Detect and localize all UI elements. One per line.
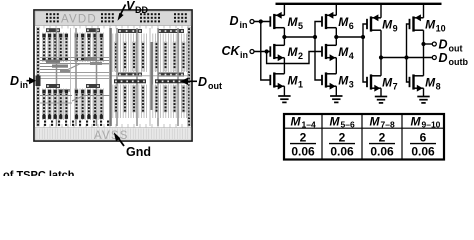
layout strap lower D — [155, 79, 187, 83]
layout strap upper C2 — [118, 73, 142, 77]
svg-text:M: M — [382, 18, 393, 32]
transistor M2 (NMOS) — [269, 44, 284, 61]
wire node C to M7 drain — [380, 58, 382, 76]
layout block upper C — [112, 34, 114, 73]
svg-text:5–6: 5–6 — [341, 120, 355, 130]
svg-text:M: M — [411, 115, 422, 129]
wire node B horizontal — [336, 36, 363, 38]
svg-text:in: in — [240, 20, 248, 30]
svg-text:9: 9 — [393, 24, 398, 34]
transistor M3 (NMOS) — [321, 72, 336, 89]
port circle D_in — [250, 20, 254, 24]
svg-text:6: 6 — [349, 21, 354, 31]
svg-text:D: D — [439, 51, 448, 65]
svg-text:of TSPC latch: of TSPC latch — [3, 170, 75, 177]
wire CK_in to M2 gate — [254, 51, 270, 53]
transistor M9 (PMOS) — [366, 14, 381, 31]
wire M10 source to VDD — [423, 4, 425, 18]
wire M6 drain to node B — [335, 28, 337, 37]
node B junction right — [361, 35, 365, 39]
layout left tap column — [37, 27, 40, 126]
svg-text:2: 2 — [298, 51, 303, 61]
svg-text:7–8: 7–8 — [381, 120, 395, 130]
layout block lower C — [112, 85, 114, 119]
wire M5 source to VDD — [283, 4, 285, 16]
svg-text:AVDD: AVDD — [61, 14, 97, 26]
node CK branch — [265, 49, 269, 53]
layout block upper A — [42, 33, 44, 63]
node A junction right — [313, 35, 317, 39]
node junction M10/M8 gates — [404, 55, 408, 59]
ground under M7 — [375, 97, 387, 103]
wire node C to D_outb — [381, 57, 433, 59]
wire node A to M6 and M3 gates — [315, 22, 322, 81]
svg-text:7: 7 — [393, 82, 398, 92]
svg-text:out: out — [208, 81, 222, 91]
svg-text:3: 3 — [349, 80, 354, 90]
svg-text:M: M — [288, 45, 299, 59]
wire CK to M4 gate — [267, 52, 322, 64]
layout block lower A — [42, 89, 44, 121]
svg-text:M: M — [425, 76, 436, 90]
port circle D_out — [432, 42, 436, 46]
svg-text:4: 4 — [349, 51, 354, 61]
layout block lower D — [152, 85, 154, 119]
svg-text:M: M — [370, 115, 381, 129]
svg-text:5: 5 — [298, 21, 303, 31]
wire M6 source to VDD — [335, 4, 337, 16]
wire node A horizontal — [284, 36, 315, 38]
wire M10 drain to node D — [423, 30, 425, 76]
wire node B to M9 and M7 gates — [363, 24, 367, 82]
svg-text:Gnd: Gnd — [126, 145, 151, 159]
wire M7 source to ground — [380, 88, 382, 96]
layout strap upper D — [158, 29, 184, 33]
svg-text:in: in — [240, 50, 248, 60]
transistor M5 (PMOS) — [269, 12, 284, 29]
svg-text:D: D — [230, 14, 239, 28]
layout AVSS ground rail band — [35, 128, 191, 141]
svg-text:D: D — [198, 75, 207, 89]
svg-text:0.06: 0.06 — [370, 145, 394, 159]
layout connector blobs — [46, 60, 60, 63]
node D junction — [421, 42, 425, 46]
layout right tap column — [188, 27, 191, 126]
svg-text:9–10: 9–10 — [422, 120, 441, 130]
transistor M4 (NMOS) — [321, 44, 336, 61]
layout strap upper D2 — [158, 73, 184, 77]
table grid — [284, 114, 444, 160]
layout routing wires middle — [40, 57, 110, 59]
node D_in branch — [259, 19, 263, 23]
layout strap upper C — [118, 29, 142, 33]
wire M1 source to ground — [283, 86, 285, 96]
layout block upper B — [74, 33, 76, 63]
ground under M3 — [330, 96, 342, 102]
wire M2 source to M1 drain — [283, 58, 285, 74]
wire to M10 and M8 gates — [407, 24, 410, 82]
wire M9 source to VDD — [380, 4, 382, 18]
layout strap upper B — [86, 28, 100, 32]
svg-text:outb: outb — [449, 57, 469, 67]
node A junction at M5 drain — [282, 35, 286, 39]
svg-text:M: M — [291, 115, 302, 129]
port circle CK_in — [250, 50, 254, 54]
svg-text:M: M — [338, 45, 349, 59]
transistor M1 (NMOS) — [269, 72, 284, 89]
layout routing wires lower — [40, 95, 72, 97]
ground under M1 — [278, 96, 290, 102]
wire node B to M4 drain — [335, 37, 337, 45]
transistor M10 (PMOS) — [409, 14, 424, 31]
wire node D to D_out — [424, 43, 433, 45]
svg-text:M: M — [338, 74, 349, 88]
svg-text:D: D — [439, 38, 448, 52]
svg-text:D: D — [10, 74, 19, 88]
layout strap lower A — [46, 84, 60, 88]
layout vertical routing lines — [109, 28, 111, 126]
VDD rail — [276, 3, 442, 5]
svg-text:AVSS: AVSS — [94, 130, 129, 142]
svg-text:M: M — [288, 15, 299, 29]
transistor M6 (PMOS) — [321, 12, 336, 29]
svg-text:10: 10 — [436, 24, 446, 34]
svg-text:CK: CK — [222, 44, 241, 58]
wire M9 drain to node C — [380, 30, 382, 57]
ground under M8 — [417, 97, 429, 103]
svg-text:DD: DD — [135, 5, 148, 15]
layout poly stubs to rails — [43, 26, 45, 29]
transistor M7 (NMOS) — [366, 74, 381, 91]
wire M3 source to ground — [335, 86, 337, 96]
svg-text:0.06: 0.06 — [411, 145, 435, 159]
layout strap lower B — [86, 84, 100, 88]
svg-text:M: M — [425, 18, 436, 32]
svg-text:in: in — [20, 80, 28, 90]
node B junction at M6 drain — [334, 35, 338, 39]
layout block lower B — [74, 89, 76, 121]
svg-text:M: M — [330, 115, 341, 129]
svg-text:2: 2 — [300, 131, 307, 145]
node C junction — [379, 55, 383, 59]
svg-text:M: M — [338, 15, 349, 29]
wire M4 source to M3 drain — [335, 58, 337, 74]
svg-text:1: 1 — [298, 80, 303, 90]
wire D_in to M5 gate — [254, 21, 270, 23]
layout strap lower C — [114, 79, 146, 83]
svg-text:8: 8 — [436, 82, 441, 92]
layout bottom contact dots — [44, 121, 46, 123]
svg-text:2: 2 — [339, 131, 346, 145]
svg-text:1–4: 1–4 — [302, 120, 316, 130]
wire M8 source to ground — [423, 88, 425, 96]
svg-text:0.06: 0.06 — [330, 145, 354, 159]
layout AVDD power rail with via clusters — [35, 11, 191, 26]
svg-text:M: M — [288, 74, 299, 88]
svg-text:M: M — [382, 76, 393, 90]
layout chip border frame — [34, 10, 192, 141]
svg-text:2: 2 — [379, 131, 386, 145]
wire node A to M2 drain — [283, 37, 285, 45]
layout block upper D — [152, 34, 154, 73]
layout strap upper A — [46, 28, 60, 32]
layout metal2 vertical strips — [56, 28, 58, 126]
svg-text:6: 6 — [420, 131, 427, 145]
transistor M8 (NMOS) — [409, 74, 424, 91]
port circle D_outb — [432, 56, 436, 60]
wire M5 drain to node A — [283, 28, 285, 37]
svg-text:0.06: 0.06 — [291, 145, 315, 159]
svg-text:out: out — [449, 44, 463, 54]
wire D_in down to M1 gate — [261, 22, 271, 81]
